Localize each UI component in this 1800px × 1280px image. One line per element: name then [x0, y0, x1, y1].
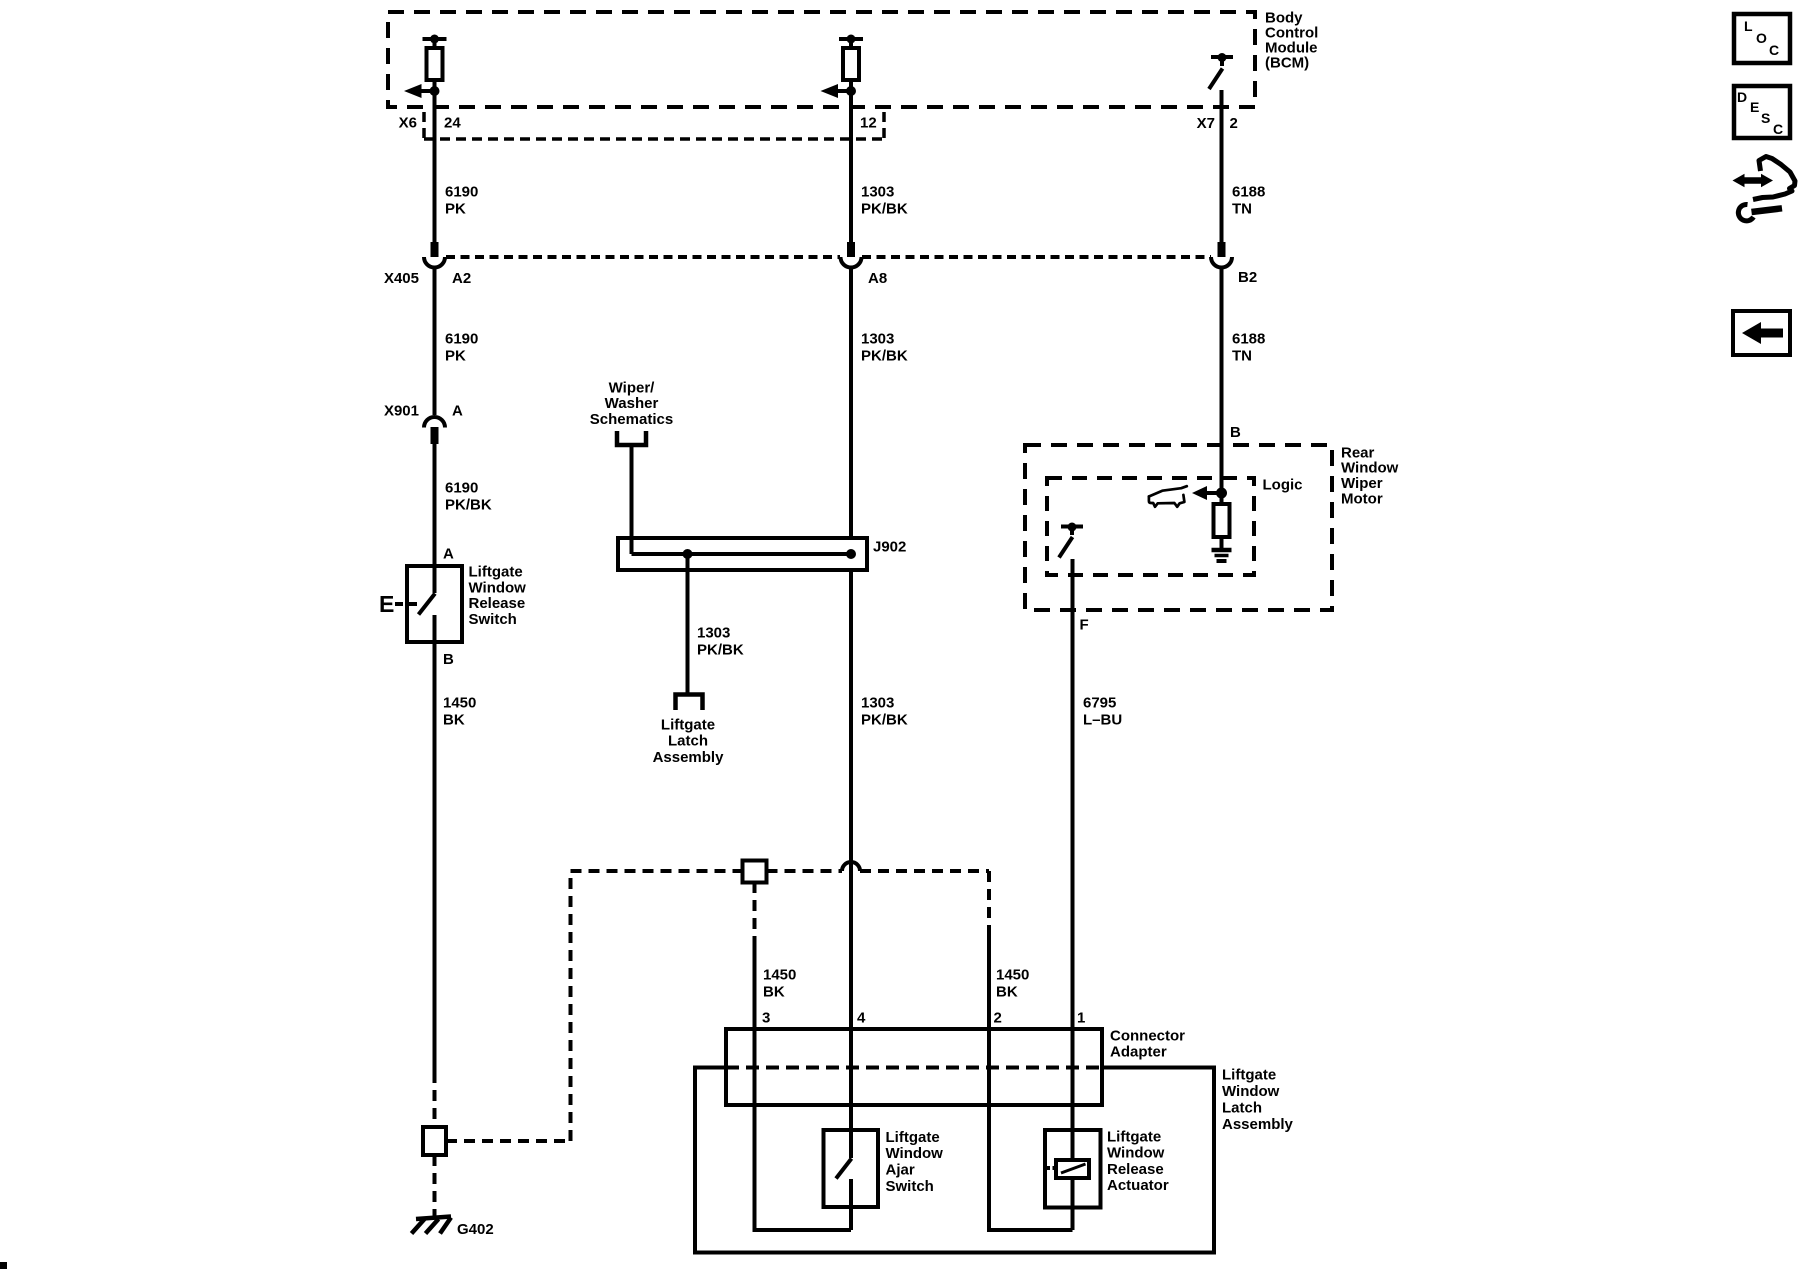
- svg-text:BK: BK: [443, 712, 465, 729]
- svg-text:1450: 1450: [996, 967, 1029, 984]
- svg-text:1303: 1303: [861, 695, 894, 712]
- svg-text:A: A: [452, 403, 463, 420]
- svg-text:Adapter: Adapter: [1110, 1044, 1167, 1061]
- svg-text:C: C: [1773, 121, 1783, 137]
- svg-text:1303: 1303: [861, 331, 894, 348]
- svg-text:Liftgate: Liftgate: [661, 716, 715, 733]
- svg-text:G402: G402: [457, 1221, 494, 1238]
- svg-text:L–BU: L–BU: [1083, 712, 1122, 729]
- svg-text:6795: 6795: [1083, 695, 1116, 712]
- svg-text:2: 2: [1230, 115, 1238, 132]
- svg-text:Schematics: Schematics: [590, 411, 673, 428]
- svg-text:X6: X6: [399, 115, 417, 132]
- svg-text:E: E: [379, 591, 394, 617]
- svg-text:X901: X901: [384, 403, 419, 420]
- svg-text:TN: TN: [1232, 348, 1252, 365]
- svg-text:1303: 1303: [861, 184, 894, 201]
- svg-text:Window: Window: [1107, 1145, 1165, 1162]
- svg-text:X405: X405: [384, 270, 419, 287]
- svg-text:4: 4: [857, 1010, 866, 1027]
- svg-text:PK: PK: [445, 201, 466, 218]
- svg-text:1303: 1303: [697, 625, 730, 642]
- svg-text:E: E: [1750, 99, 1759, 115]
- svg-text:Assembly: Assembly: [1222, 1116, 1294, 1133]
- svg-text:BK: BK: [996, 984, 1018, 1001]
- svg-text:B2: B2: [1238, 269, 1257, 286]
- svg-text:6188: 6188: [1232, 331, 1265, 348]
- svg-text:3: 3: [762, 1010, 770, 1027]
- svg-text:Latch: Latch: [668, 733, 708, 750]
- svg-text:Wiper/: Wiper/: [609, 379, 656, 396]
- svg-text:24: 24: [444, 115, 461, 132]
- svg-text:X7: X7: [1197, 115, 1215, 132]
- svg-text:Liftgate: Liftgate: [469, 564, 523, 581]
- svg-text:A2: A2: [452, 270, 471, 287]
- svg-text:Assembly: Assembly: [653, 749, 725, 766]
- svg-text:PK: PK: [445, 348, 466, 365]
- svg-text:Window: Window: [886, 1145, 944, 1162]
- svg-text:6190: 6190: [445, 184, 478, 201]
- svg-text:Connector: Connector: [1110, 1028, 1185, 1045]
- svg-text:6190: 6190: [445, 480, 478, 497]
- svg-text:BK: BK: [763, 984, 785, 1001]
- svg-text:Release: Release: [469, 595, 526, 612]
- svg-text:Ajar: Ajar: [886, 1162, 915, 1179]
- svg-text:PK/BK: PK/BK: [861, 712, 908, 729]
- svg-text:12: 12: [860, 115, 877, 132]
- svg-text:Motor: Motor: [1341, 490, 1383, 507]
- svg-text:Switch: Switch: [886, 1178, 934, 1195]
- svg-text:1450: 1450: [443, 695, 476, 712]
- svg-text:PK/BK: PK/BK: [445, 497, 492, 514]
- svg-text:PK/BK: PK/BK: [861, 348, 908, 365]
- svg-text:6188: 6188: [1232, 184, 1265, 201]
- svg-text:Liftgate: Liftgate: [886, 1129, 940, 1146]
- svg-text:1: 1: [1077, 1010, 1085, 1027]
- svg-text:Release: Release: [1107, 1161, 1164, 1178]
- svg-text:Washer: Washer: [605, 395, 659, 412]
- svg-text:J902: J902: [873, 539, 906, 556]
- svg-text:B: B: [1230, 424, 1241, 441]
- svg-text:B: B: [443, 651, 454, 668]
- svg-text:O: O: [1756, 30, 1767, 46]
- svg-text:C: C: [1769, 42, 1779, 58]
- svg-text:Actuator: Actuator: [1107, 1177, 1169, 1194]
- svg-text:Logic: Logic: [1263, 477, 1303, 494]
- svg-text:6190: 6190: [445, 331, 478, 348]
- svg-text:S: S: [1761, 110, 1770, 126]
- svg-text:Window: Window: [469, 579, 527, 596]
- svg-text:D: D: [1737, 89, 1747, 105]
- svg-text:L: L: [1744, 18, 1753, 34]
- svg-text:Switch: Switch: [469, 611, 517, 628]
- svg-text:PK/BK: PK/BK: [861, 201, 908, 218]
- svg-text:(BCM): (BCM): [1265, 55, 1309, 72]
- svg-text:Liftgate: Liftgate: [1107, 1129, 1161, 1146]
- svg-text:F: F: [1080, 617, 1089, 634]
- svg-text:2: 2: [994, 1010, 1002, 1027]
- svg-text:PK/BK: PK/BK: [697, 642, 744, 659]
- svg-text:TN: TN: [1232, 201, 1252, 218]
- svg-text:A: A: [443, 546, 454, 563]
- svg-text:A8: A8: [868, 270, 887, 287]
- svg-text:1450: 1450: [763, 967, 796, 984]
- svg-text:Latch: Latch: [1222, 1100, 1262, 1117]
- svg-text:Liftgate: Liftgate: [1222, 1067, 1276, 1084]
- svg-text:Window: Window: [1222, 1083, 1280, 1100]
